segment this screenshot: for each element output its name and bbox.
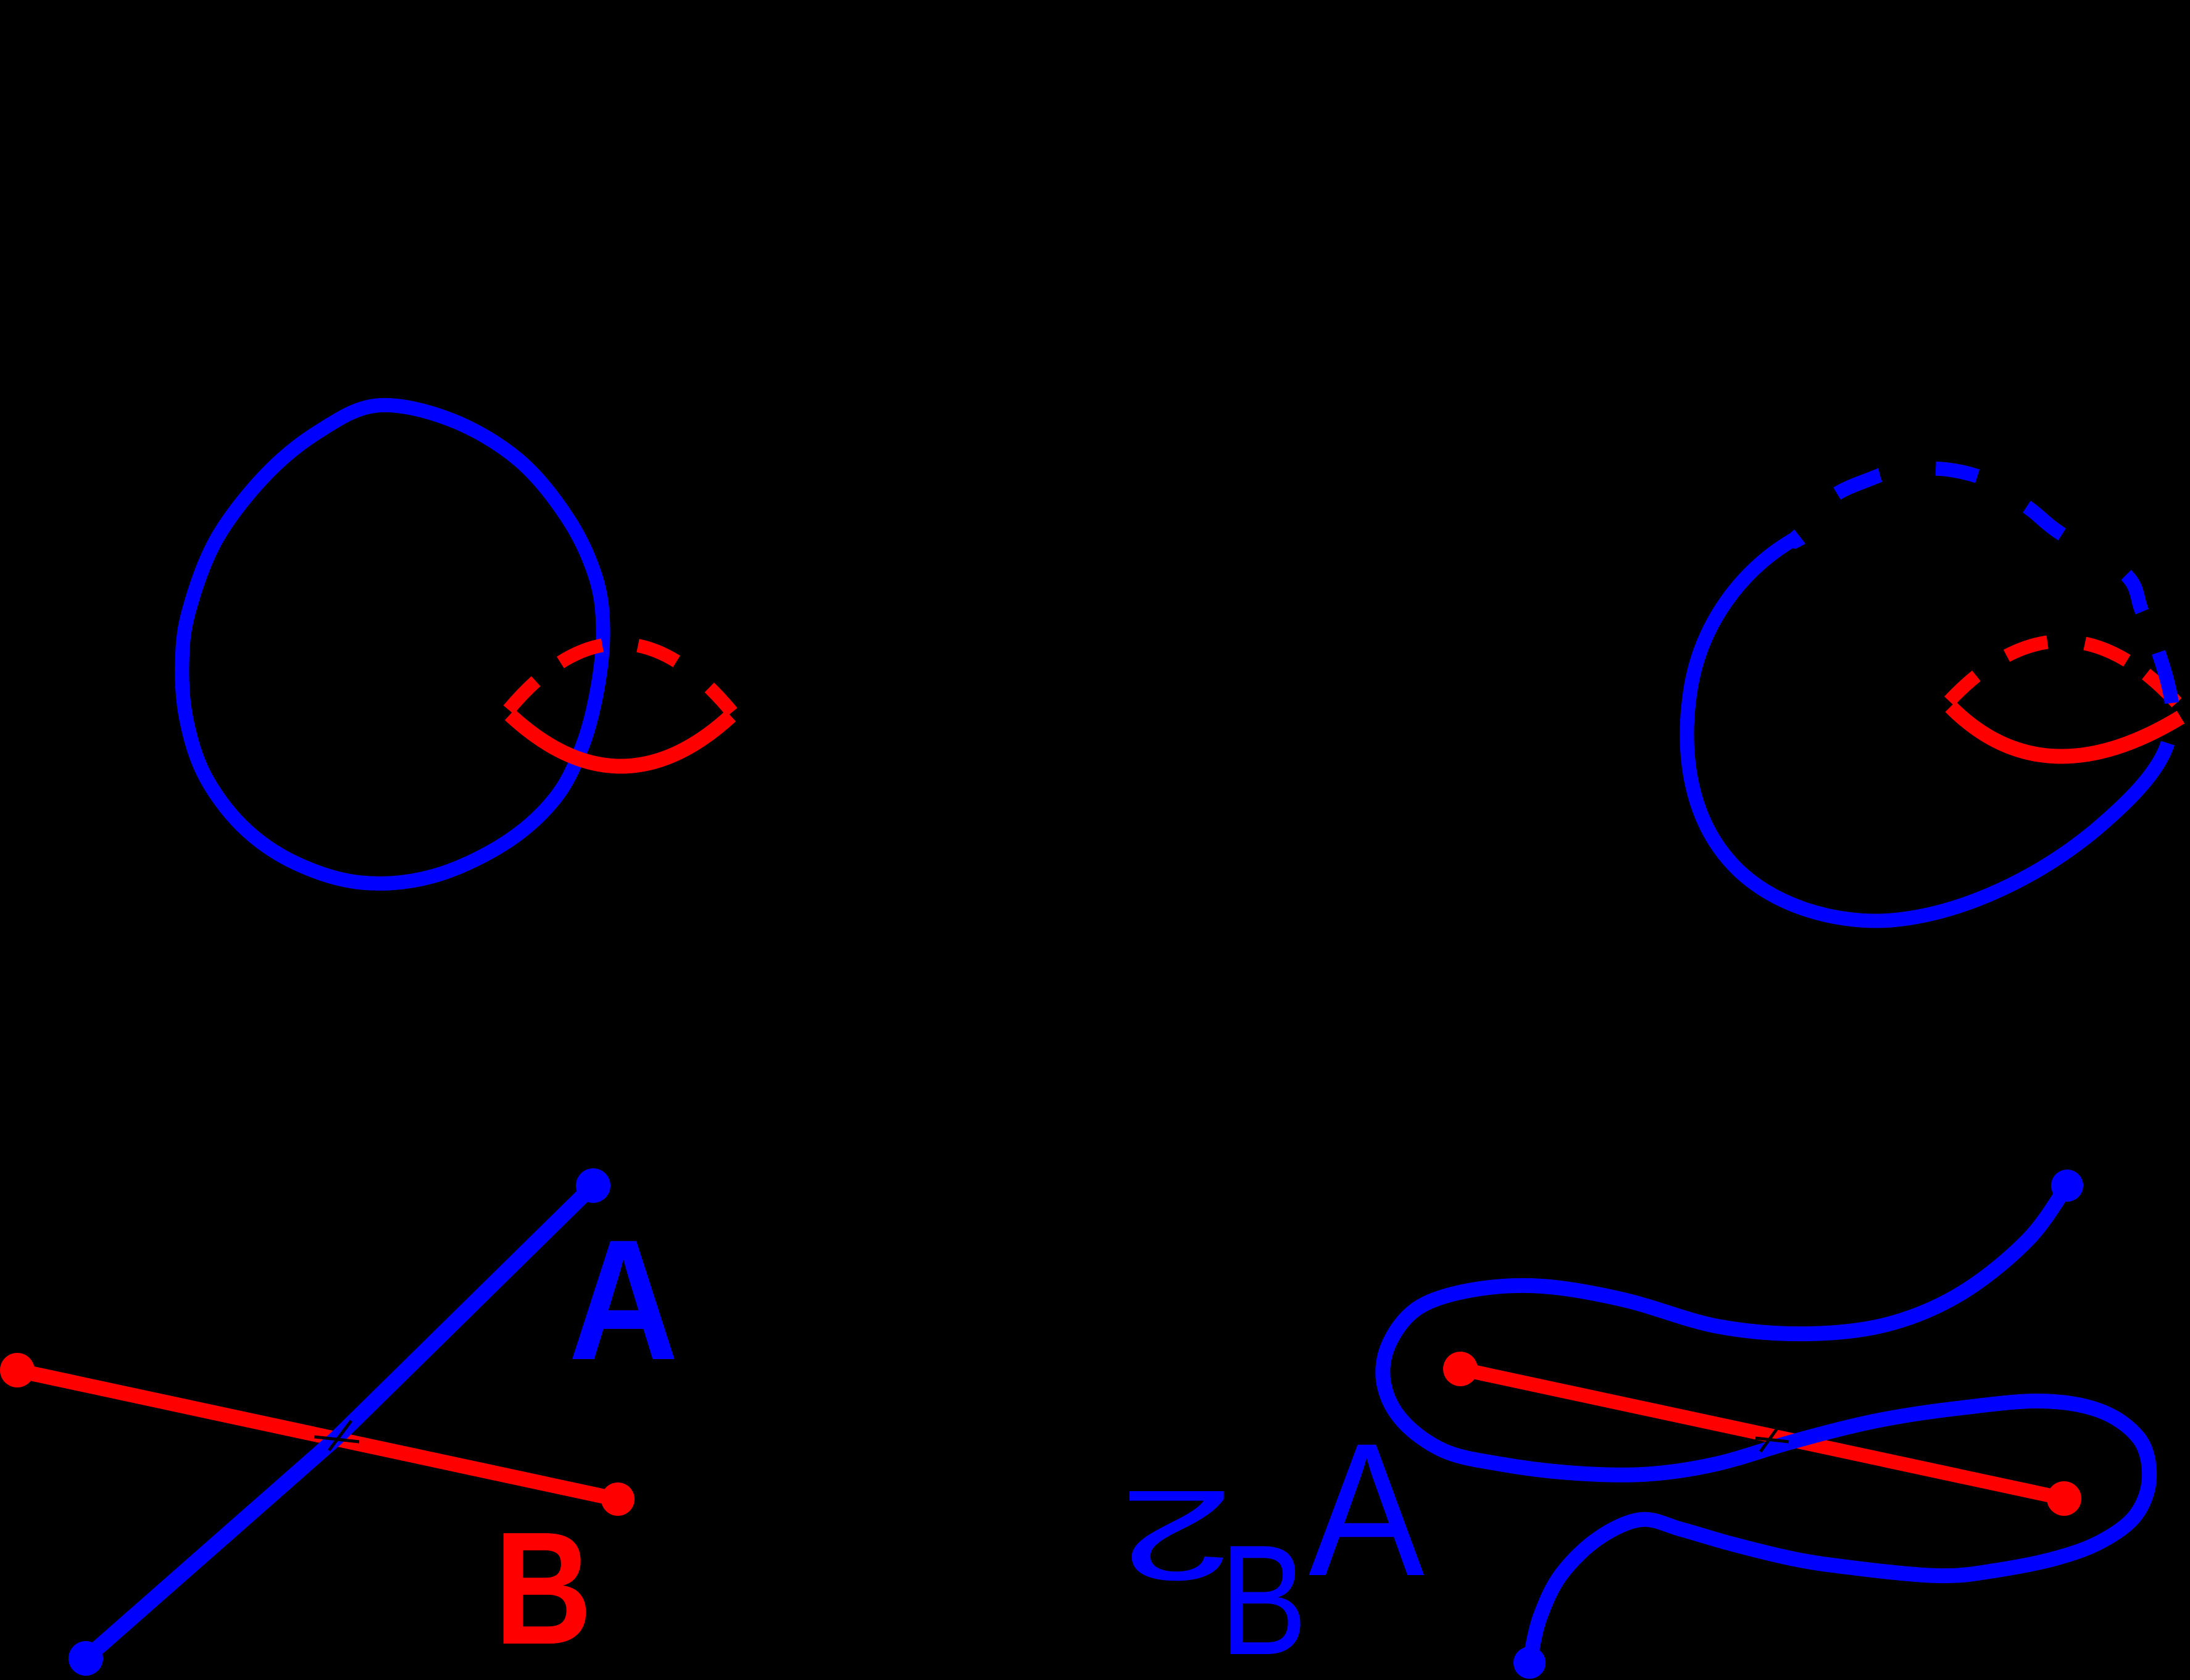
loop B1: red lens, bottom arc (solid, front part, drawn over blue) <box>510 715 731 767</box>
endpoint dot of B4 (left) <box>1443 1352 1478 1386</box>
crossing mark x (figure 4) <box>1755 1438 1789 1442</box>
endpoint dot of A4 (bottom) <box>1513 1647 1546 1679</box>
segment B3: red chord <box>28 1373 608 1497</box>
segment A3: blue chord (over red) <box>86 1186 593 1658</box>
curve A4: blue serpentine (over red) <box>1383 1186 2149 1663</box>
endpoint dot of B3 (right) <box>601 1482 635 1516</box>
svg-text:B: B <box>494 1498 592 1678</box>
endpoint dot of B4 (right) <box>2047 1481 2081 1516</box>
endpoint dot of A3 (bottom) <box>69 1641 103 1676</box>
endpoint dot of B3 (left) <box>0 1353 35 1387</box>
svg-text:B: B <box>1220 1512 1307 1680</box>
curve A1: blue closed loop <box>182 405 603 883</box>
svg-text:2: 2 <box>1119 1463 1234 1607</box>
arrowhead at start of solid part of curve A2 <box>1774 530 1805 549</box>
curve A2: blue loop, dashed hidden part <box>1792 468 2173 736</box>
curve A2: blue loop, solid front part <box>1687 540 2168 921</box>
loop B2: red lens, top arc (dashed) <box>1949 641 2186 713</box>
loop B1: red lens, top arc (dashed, hidden part) <box>509 644 732 712</box>
loop B2: red lens, bottom arc (solid) <box>1951 707 2181 757</box>
svg-text:A: A <box>568 1204 678 1395</box>
svg-text:A: A <box>1309 1405 1425 1616</box>
endpoint dot of A4 (top right) <box>2051 1170 2083 1202</box>
crossing mark x (figure 3) <box>314 1437 359 1442</box>
segment B4: red chord <box>1460 1369 2064 1499</box>
endpoint dot of A3 (top) <box>576 1168 610 1203</box>
